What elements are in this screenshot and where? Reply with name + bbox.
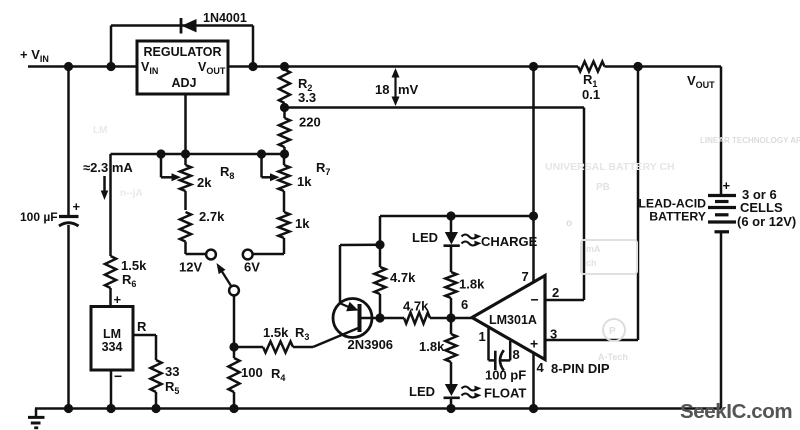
junction R2 bottom rail2 xyxy=(280,103,289,112)
svg-text:6: 6 xyxy=(461,297,468,312)
svg-text:3: 3 xyxy=(550,327,557,342)
svg-text:LED: LED xyxy=(412,230,438,245)
svg-text:n--jA: n--jA xyxy=(120,188,143,199)
svg-text:1.8k: 1.8k xyxy=(459,277,485,292)
svg-text:100 pF: 100 pF xyxy=(485,368,526,383)
potentiometer R7 1k xyxy=(283,154,286,165)
light arrows float xyxy=(462,387,477,391)
svg-text:(6 or 12V): (6 or 12V) xyxy=(737,214,796,229)
svg-text:LM: LM xyxy=(103,327,121,341)
junction pin4 ground xyxy=(529,404,538,413)
svg-text:3.3: 3.3 xyxy=(298,90,316,105)
svg-text:UNIVERSAL BATTERY CH: UNIVERSAL BATTERY CH xyxy=(545,161,675,173)
junction diode cathode-rail xyxy=(248,62,257,71)
light arrows charge xyxy=(462,235,477,239)
svg-text:ADJ: ADJ xyxy=(171,76,196,90)
svg-text:PB: PB xyxy=(596,182,610,193)
junction R8 wiper tap xyxy=(156,149,165,158)
wire ADJ pin xyxy=(184,94,187,154)
svg-text:LEAD-ACID: LEAD-ACID xyxy=(638,197,706,211)
svg-text:7: 7 xyxy=(522,269,529,284)
junction diode anode-rail xyxy=(106,62,115,71)
wire rail R1 to VOUT corner xyxy=(605,65,722,68)
junction R2 top xyxy=(280,62,289,71)
svg-text:+: + xyxy=(723,178,731,193)
junction cap ground xyxy=(64,404,73,413)
svg-text:33: 33 xyxy=(165,364,179,379)
svg-text:CHARGE: CHARGE xyxy=(481,234,538,249)
junction R4 ground xyxy=(229,404,238,413)
svg-text:0.1: 0.1 xyxy=(582,87,600,102)
svg-text:4.7k: 4.7k xyxy=(403,299,429,314)
junction ADJ mid xyxy=(181,149,190,158)
junction pin7 top rail xyxy=(529,62,538,71)
svg-text:+: + xyxy=(73,199,81,214)
junction input/cap xyxy=(64,62,73,71)
LED D3 float xyxy=(445,384,458,396)
diode D1 1N4001 xyxy=(110,26,113,67)
svg-text:LM: LM xyxy=(93,125,107,136)
svg-text:4: 4 xyxy=(537,360,545,375)
svg-text:R: R xyxy=(137,319,147,334)
wire emitter rail top xyxy=(380,215,534,218)
svg-text:2: 2 xyxy=(552,285,559,300)
svg-text:334: 334 xyxy=(102,340,123,354)
junction pin6 node xyxy=(446,313,455,322)
resistor 4.7k vertical xyxy=(379,245,382,267)
svg-text:1k: 1k xyxy=(297,174,312,189)
resistor R1 0.1 xyxy=(578,62,605,72)
svg-text:A-Tech: A-Tech xyxy=(598,352,628,362)
svg-text:≈2.3 mA: ≈2.3 mA xyxy=(83,160,133,175)
transistor Q1 2N3906 xyxy=(333,299,372,338)
wire emitter rail up xyxy=(379,216,382,245)
svg-text:mA: mA xyxy=(586,244,601,254)
svg-text:12V: 12V xyxy=(179,260,202,275)
junction base node xyxy=(375,313,384,322)
resistor 1.8k lower xyxy=(450,318,453,334)
ground symbol xyxy=(35,409,38,417)
svg-text:1.5k: 1.5k xyxy=(121,258,147,273)
resistor 220 xyxy=(283,108,286,119)
junction LED charge top xyxy=(446,211,455,220)
resistor R2 3.3 xyxy=(283,67,286,70)
svg-text:18: 18 xyxy=(375,82,389,97)
svg-text:2N3906: 2N3906 xyxy=(348,337,394,352)
wire mid rail xyxy=(111,153,285,156)
wire emitter to 4.7k xyxy=(340,243,380,246)
svg-text:ch: ch xyxy=(586,258,597,268)
svg-text:CELLS: CELLS xyxy=(740,200,783,215)
resistor 1k lower xyxy=(278,212,289,238)
wire ground rail xyxy=(35,407,721,410)
svg-text:o: o xyxy=(566,218,572,229)
terminal 6V xyxy=(253,253,284,256)
svg-text:P: P xyxy=(609,326,616,337)
svg-text:LM301A: LM301A xyxy=(489,313,537,327)
svg-text:4.7k: 4.7k xyxy=(390,270,416,285)
wire regulator VOUT rail xyxy=(228,65,578,68)
wire LM334 bottom xyxy=(110,370,113,409)
LED D2 charge xyxy=(450,216,453,232)
wire VOUT down to battery xyxy=(720,67,723,196)
junction R3/R4 node xyxy=(229,342,238,351)
svg-text:LINEAR TECHNOLOGY AP: LINEAR TECHNOLOGY AP xyxy=(700,136,800,145)
capacitor C1 100uF xyxy=(67,67,70,216)
svg-text:SeekIC.com: SeekIC.com xyxy=(680,400,792,423)
svg-text:BATTERY: BATTERY xyxy=(649,210,706,224)
junction pin3 top rail xyxy=(633,62,642,71)
wire switch to node xyxy=(233,295,236,347)
svg-text:100 µF: 100 µF xyxy=(20,210,58,224)
wire rail2 sense xyxy=(285,106,585,109)
potentiometer R8 2k xyxy=(184,154,187,165)
pin 4 wire xyxy=(532,353,535,409)
wire +VIN to regulator xyxy=(28,65,137,68)
svg-text:8: 8 xyxy=(513,347,520,362)
junction R5 ground xyxy=(151,404,160,413)
svg-text:+: + xyxy=(114,292,122,307)
svg-text:2.7k: 2.7k xyxy=(199,209,225,224)
regulator U2 box xyxy=(137,41,228,94)
IC U3 LM334 box xyxy=(91,307,133,371)
junction float bottom xyxy=(446,404,455,413)
svg-text:REGULATOR: REGULATOR xyxy=(143,45,221,59)
svg-text:1.5k: 1.5k xyxy=(263,325,289,340)
junction 220 bottom xyxy=(280,149,289,158)
svg-text:1: 1 xyxy=(479,329,486,344)
svg-text:220: 220 xyxy=(299,115,321,130)
junction R7 wiper tap xyxy=(257,149,266,158)
capacitor 100pF comp xyxy=(487,327,490,360)
junction LM334 ground xyxy=(106,404,115,413)
svg-text:8-PIN DIP: 8-PIN DIP xyxy=(551,361,610,376)
junction emitter 4.7k top xyxy=(375,240,384,249)
resistor R4 100 xyxy=(233,347,236,358)
pin 3 wire xyxy=(545,339,638,342)
resistor 2.7k xyxy=(180,212,191,242)
svg-text:1N4001: 1N4001 xyxy=(203,11,247,25)
resistor R6 1.5k xyxy=(109,154,112,256)
junction pin7 rail xyxy=(529,211,538,220)
svg-text:2k: 2k xyxy=(197,175,212,190)
pin 7 wire xyxy=(532,67,535,283)
junction R1 right xyxy=(633,62,642,71)
svg-text:−: − xyxy=(114,368,122,384)
svg-text:6V: 6V xyxy=(244,260,260,275)
pin 2 wire xyxy=(545,299,584,302)
svg-text:mV: mV xyxy=(398,82,419,97)
resistor 1.8k upper xyxy=(445,272,456,298)
svg-text:FLOAT: FLOAT xyxy=(484,386,526,401)
terminal 12V xyxy=(186,253,206,256)
resistor 4.7k horizontal xyxy=(380,317,404,320)
resistor R3 1.5k xyxy=(234,346,263,349)
svg-text:−: − xyxy=(531,292,539,308)
svg-text:+: + xyxy=(530,336,538,352)
resistor R5 33 xyxy=(150,360,161,392)
svg-text:100: 100 xyxy=(241,365,263,380)
switch pole xyxy=(229,286,239,296)
svg-text:LED: LED xyxy=(409,384,435,399)
op-amp U1 LM301A xyxy=(472,276,545,360)
svg-text:1.8k: 1.8k xyxy=(419,339,445,354)
svg-text:1k: 1k xyxy=(295,216,310,231)
